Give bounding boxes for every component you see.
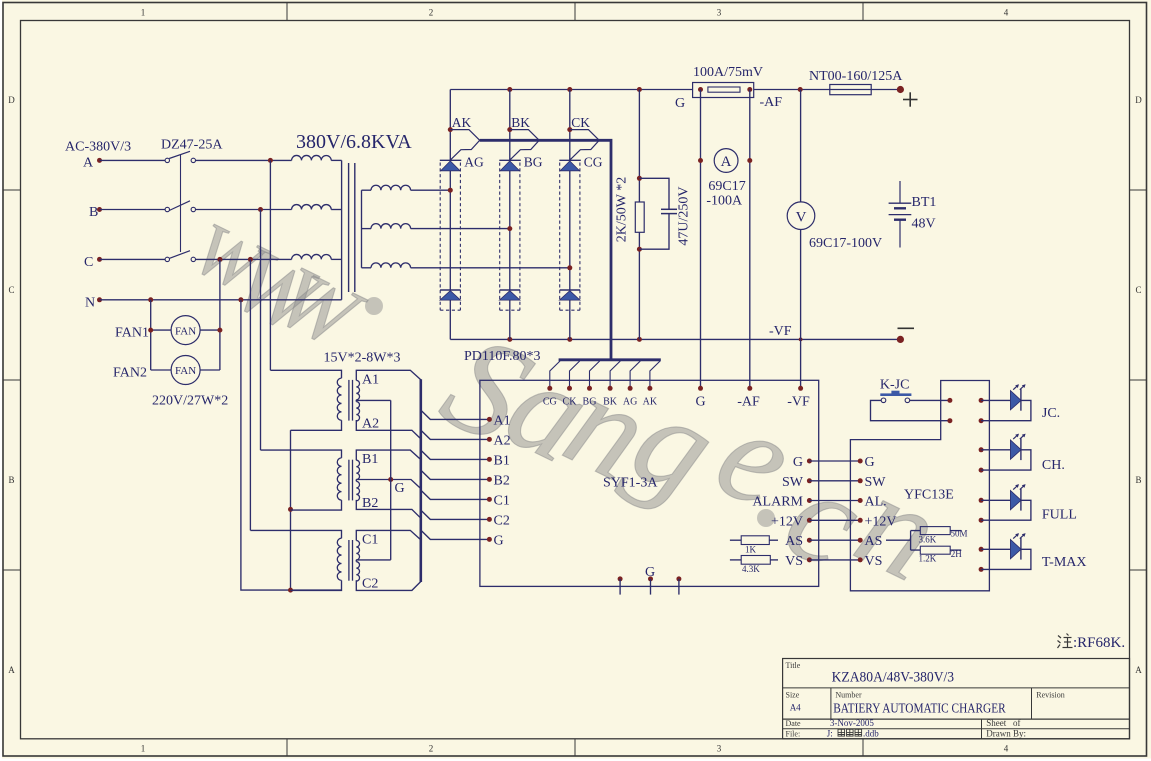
junction top B bbox=[507, 87, 512, 92]
label 48V bbox=[912, 217, 936, 232]
svg-text:BG: BG bbox=[583, 397, 597, 408]
wire B1 entry bbox=[356, 450, 421, 460]
svg-text:69C17-100V: 69C17-100V bbox=[809, 236, 882, 251]
breaker pole B DZ47-25A bbox=[100, 201, 196, 212]
primary star bracket bbox=[341, 160, 343, 299]
wire C to fans bbox=[219, 259, 221, 370]
svg-text:3: 3 bbox=[717, 8, 722, 18]
label 380V/6.8KVA bbox=[296, 131, 412, 153]
title block frame bbox=[783, 659, 1130, 740]
label FAN2 bbox=[113, 365, 147, 380]
wire bus to pin B2 bbox=[421, 470, 490, 479]
svg-text:380V/6.8KVA: 380V/6.8KVA bbox=[296, 131, 412, 153]
svg-text:CH.: CH. bbox=[1042, 458, 1065, 473]
thyristor VC cathode bar bbox=[559, 159, 581, 161]
junction ammeter L bbox=[698, 158, 703, 163]
wire coilB right bbox=[331, 209, 341, 211]
resistor 2K/50W bbox=[635, 202, 644, 232]
junction C1 bbox=[217, 257, 222, 262]
wire A to transformer bbox=[196, 159, 292, 161]
junction top R bbox=[637, 87, 642, 92]
wire column B bottom bbox=[509, 300, 511, 339]
label CH. bbox=[1042, 458, 1065, 473]
thyristor VA bbox=[441, 161, 461, 171]
label C2 t bbox=[362, 576, 378, 591]
label -AF shunt bbox=[760, 95, 783, 110]
wire column C mid bbox=[569, 171, 571, 290]
wire column A bottom bbox=[449, 300, 451, 339]
terminal B bbox=[97, 207, 102, 212]
terminal minus bbox=[897, 336, 904, 343]
module outline C bbox=[560, 163, 580, 311]
wire N down bbox=[241, 300, 342, 590]
wire C to transformer bbox=[196, 258, 292, 260]
label B2 t bbox=[362, 496, 378, 511]
svg-text:G: G bbox=[645, 565, 655, 580]
plus sign bbox=[903, 92, 918, 106]
wire K-JC right bbox=[910, 399, 950, 401]
label JC. bbox=[1042, 406, 1060, 421]
svg-text:Number: Number bbox=[835, 691, 862, 700]
svg-text:BG: BG bbox=[524, 155, 543, 170]
U2 left pin SW bbox=[858, 475, 887, 490]
module outline B bbox=[500, 163, 520, 311]
wire G leg bbox=[700, 90, 702, 389]
svg-text:PD110F.80*3: PD110F.80*3 bbox=[464, 349, 541, 364]
wire bus to pin C2 bbox=[421, 510, 490, 519]
svg-text:BK: BK bbox=[603, 397, 618, 408]
label AK bbox=[452, 115, 472, 130]
wire phase A down bbox=[269, 160, 271, 370]
transformer T1 primary coil C bbox=[292, 254, 332, 259]
junction bot C bbox=[567, 337, 572, 342]
svg-text:C: C bbox=[8, 285, 14, 295]
svg-text:G: G bbox=[395, 481, 405, 496]
svg-text:Drawn By:: Drawn By: bbox=[986, 728, 1026, 738]
junction coil a bbox=[448, 188, 453, 193]
switch K-JC bbox=[880, 391, 911, 403]
junction bot R bbox=[637, 337, 642, 342]
wire C1 entry bbox=[356, 530, 421, 540]
junction bot VF bbox=[799, 338, 803, 342]
junction BK bbox=[507, 127, 512, 132]
label BT1 bbox=[912, 195, 937, 210]
wire column A mid bbox=[449, 171, 451, 290]
module outline A bbox=[440, 163, 460, 311]
svg-text:B1: B1 bbox=[494, 454, 510, 469]
transformer TA secondary w2 bbox=[356, 402, 359, 421]
svg-text:G: G bbox=[865, 455, 875, 470]
port BK bbox=[510, 130, 539, 161]
wire AS net bbox=[886, 531, 920, 551]
svg-text:AS: AS bbox=[865, 534, 883, 549]
svg-text:C: C bbox=[84, 255, 93, 270]
breaker pole A DZ47-25A bbox=[100, 151, 196, 162]
svg-text:AK: AK bbox=[643, 397, 658, 408]
thyristor VA cathode bar bbox=[440, 159, 462, 161]
LED JC. bbox=[979, 384, 1031, 423]
svg-text:100A/75mV: 100A/75mV bbox=[693, 65, 763, 80]
label 100A/75mV bbox=[693, 65, 763, 80]
transformer TB secondary w1 bbox=[356, 460, 359, 479]
junction bot B bbox=[507, 337, 512, 342]
svg-text:File:: File: bbox=[786, 729, 801, 738]
label SYF1-3A bbox=[603, 476, 658, 491]
wire C2 entry bbox=[356, 580, 421, 590]
svg-text:-100A: -100A bbox=[706, 194, 743, 209]
wire U1-U2 row 559.9 bbox=[809, 559, 860, 561]
transformer T1 secondary coil a bbox=[362, 185, 451, 190]
wire U1-U2 row 520.3 bbox=[809, 519, 860, 521]
port CK bbox=[570, 130, 599, 161]
wire column B top bbox=[509, 90, 511, 161]
svg-text:N: N bbox=[85, 296, 95, 311]
label 2H bbox=[951, 549, 963, 559]
svg-text:D: D bbox=[8, 95, 15, 105]
transformer TC secondary w2 bbox=[356, 562, 359, 581]
number BATIERY AUTOMATIC CHARGER bbox=[833, 701, 1006, 716]
wire phase C down bbox=[249, 259, 251, 530]
wire 2K leg bottom bbox=[638, 232, 640, 339]
wire VF leg bottom bbox=[800, 230, 802, 389]
transformer TB secondary w2 bbox=[356, 481, 359, 500]
thyristor VC bbox=[560, 161, 580, 171]
wire column C top bbox=[569, 90, 571, 161]
svg-text:A: A bbox=[8, 665, 15, 675]
wire bus to pin A1 bbox=[421, 410, 490, 419]
ammeter PA1 bbox=[714, 149, 738, 173]
wire coilA right bbox=[331, 159, 341, 161]
terminal plus bbox=[897, 86, 904, 93]
wire column C bottom bbox=[569, 300, 571, 339]
label 1K bbox=[745, 545, 757, 555]
svg-text:+12V: +12V bbox=[865, 514, 897, 529]
pin -VF top bbox=[787, 386, 810, 410]
port AK bbox=[450, 130, 479, 161]
svg-text:A1: A1 bbox=[362, 372, 379, 387]
label C1 t bbox=[362, 533, 378, 548]
svg-text:CK: CK bbox=[571, 115, 590, 130]
svg-text:SW: SW bbox=[782, 475, 804, 490]
svg-text:AS: AS bbox=[785, 534, 803, 549]
label K-JC bbox=[880, 378, 910, 393]
junction fan1 left bbox=[148, 328, 153, 333]
wire bus to pin C1 bbox=[421, 490, 490, 499]
U1 right pin VS bbox=[785, 554, 812, 569]
wire B to transformer bbox=[196, 209, 292, 211]
U1 bottom pins bbox=[618, 576, 682, 594]
svg-text:ALARM: ALARM bbox=[752, 495, 803, 510]
svg-text:NT00-160/125A: NT00-160/125A bbox=[809, 69, 903, 84]
wire U1-U2 row 500.5 bbox=[809, 500, 860, 502]
svg-text:BT1: BT1 bbox=[912, 195, 937, 210]
junction K-JC a bbox=[947, 398, 952, 403]
wire B tap bbox=[356, 479, 421, 488]
label 220V/27W*2 bbox=[152, 394, 228, 409]
pin B1 left bbox=[487, 454, 510, 469]
junction top C bbox=[567, 87, 572, 92]
label A4 bbox=[790, 703, 801, 713]
resistor R4 1.2K bbox=[920, 546, 961, 554]
junction B bbox=[258, 207, 263, 212]
svg-text:G: G bbox=[675, 96, 685, 111]
svg-text:B: B bbox=[8, 475, 14, 485]
title block small labels bbox=[786, 661, 1065, 738]
svg-text:C1: C1 bbox=[362, 533, 378, 548]
svg-text:50M: 50M bbox=[951, 529, 968, 539]
thyristor VB cathode bar bbox=[499, 159, 521, 161]
svg-text:V: V bbox=[796, 210, 807, 226]
junction N2 bbox=[238, 297, 243, 302]
wire coilC right bbox=[331, 258, 341, 260]
block U2 YFC13E bbox=[850, 381, 989, 591]
label NT00-160/125A bbox=[809, 69, 903, 84]
svg-text:1.2K: 1.2K bbox=[919, 554, 937, 564]
svg-text:4.3K: 4.3K bbox=[742, 564, 760, 574]
label FULL bbox=[1042, 508, 1077, 523]
node A label bbox=[83, 156, 94, 171]
svg-text:A: A bbox=[83, 156, 94, 171]
LED CH. bbox=[979, 434, 1031, 473]
wire column A top bbox=[449, 90, 451, 161]
svg-text:AL.: AL. bbox=[865, 495, 887, 510]
junction coil c bbox=[567, 265, 572, 270]
junction shunt L bbox=[698, 87, 703, 92]
svg-text:1: 1 bbox=[141, 8, 146, 18]
label T-MAX bbox=[1042, 555, 1087, 570]
file name bbox=[827, 728, 880, 738]
svg-text:C2: C2 bbox=[362, 576, 378, 591]
svg-text:J:: J: bbox=[827, 728, 833, 738]
svg-text:FAN: FAN bbox=[175, 365, 196, 377]
junction 2K top bbox=[637, 176, 642, 181]
wire U1-U2 row 461.0 bbox=[809, 460, 860, 462]
label B1 t bbox=[362, 452, 378, 467]
svg-text:C: C bbox=[1135, 285, 1141, 295]
wire bus to pin A2 bbox=[421, 430, 490, 439]
label 3.6K bbox=[919, 535, 937, 545]
svg-text:T-MAX: T-MAX bbox=[1042, 555, 1087, 570]
svg-text:A: A bbox=[721, 154, 732, 170]
svg-text:B: B bbox=[1135, 475, 1141, 485]
diode DA cathode bar bbox=[440, 289, 461, 291]
wire AF leg bbox=[749, 90, 751, 389]
block U1 SYF1-3A bbox=[480, 380, 819, 586]
svg-text:Revision: Revision bbox=[1036, 691, 1064, 700]
terminal C bbox=[97, 257, 102, 262]
junction prim B bbox=[288, 507, 293, 512]
wire A tap bbox=[356, 400, 390, 402]
terminal N bbox=[97, 297, 102, 302]
wire B2 entry bbox=[356, 500, 421, 518]
wire K-JC left bbox=[871, 400, 950, 420]
svg-text::RF68K.: :RF68K. bbox=[1073, 635, 1125, 651]
wire A1 entry bbox=[356, 370, 421, 380]
pin C2 left bbox=[487, 514, 510, 529]
transformer TC primary bbox=[250, 530, 341, 590]
wire U1-U2 row 480.8 bbox=[809, 480, 860, 482]
pin A1 left bbox=[487, 414, 511, 429]
diode DB cathode bar bbox=[500, 289, 520, 291]
wire phase B down bbox=[260, 210, 262, 451]
svg-text:G: G bbox=[695, 395, 705, 410]
svg-text:Date: Date bbox=[786, 719, 802, 728]
svg-text:3-Nov-2005: 3-Nov-2005 bbox=[830, 718, 874, 728]
wire VF leg top bbox=[800, 90, 802, 202]
pin G top bbox=[695, 386, 705, 410]
resistor R1 1K bbox=[730, 536, 778, 545]
junction 2K bottom bbox=[637, 247, 642, 252]
transformer TC core bbox=[349, 540, 353, 581]
title KZA80A/48V-380V/3 bbox=[832, 670, 955, 686]
svg-text:Sheet of: Sheet of bbox=[986, 718, 1020, 728]
svg-text:1K: 1K bbox=[745, 545, 757, 555]
diode DC bbox=[559, 291, 580, 300]
svg-text:BATIERY AUTOMATIC CHARGER: BATIERY AUTOMATIC CHARGER bbox=[833, 701, 1006, 716]
label PD110F.80*3 bbox=[464, 349, 541, 364]
svg-text:-VF: -VF bbox=[787, 395, 810, 410]
node N label bbox=[85, 296, 95, 311]
svg-text:G: G bbox=[494, 534, 504, 549]
U1 right pin G bbox=[793, 455, 812, 470]
U2 left pin AS bbox=[858, 534, 883, 549]
wire column B mid bbox=[509, 171, 511, 290]
junction C2 bbox=[248, 257, 253, 262]
svg-text:15V*2-8W*3: 15V*2-8W*3 bbox=[324, 351, 401, 366]
U1 top pin labels bbox=[543, 397, 658, 408]
label G tap bbox=[395, 481, 405, 496]
junction ammeter R bbox=[747, 158, 752, 163]
wire fuse to plus bbox=[871, 89, 900, 91]
svg-text:Title: Title bbox=[786, 661, 801, 670]
transformer TA secondary w1 bbox=[356, 380, 359, 399]
diode DB bbox=[499, 291, 520, 300]
transformer T1 secondary coil c bbox=[362, 263, 570, 268]
svg-text:69C17: 69C17 bbox=[708, 179, 745, 194]
label A2 t bbox=[362, 416, 379, 431]
label 1.2K bbox=[919, 554, 937, 564]
diode DC cathode bar bbox=[560, 289, 581, 291]
shunt RS outer bbox=[693, 83, 754, 98]
label FAN1 bbox=[115, 326, 149, 341]
junction CK bbox=[567, 127, 572, 132]
wire U1-U2 row 540.2 bbox=[809, 539, 860, 541]
U1 right pin AS bbox=[785, 534, 812, 549]
svg-text:D: D bbox=[1135, 95, 1142, 105]
junction VF top bbox=[798, 87, 803, 92]
svg-text:A: A bbox=[1135, 665, 1142, 675]
junction shunt R bbox=[747, 87, 752, 92]
svg-text:48V: 48V bbox=[912, 217, 936, 232]
svg-text:SW: SW bbox=[865, 475, 887, 490]
svg-text:CG: CG bbox=[543, 397, 557, 408]
transformer TA core bbox=[349, 380, 353, 421]
bus K thick bbox=[480, 140, 611, 359]
pin B2 left bbox=[487, 474, 510, 489]
U1 right pin ALARM bbox=[752, 495, 811, 510]
transformer TA primary bbox=[270, 370, 341, 430]
U2 left pin G bbox=[858, 455, 875, 470]
wire bus to pin B1 bbox=[421, 450, 490, 459]
transformer T1 secondary coil b bbox=[362, 224, 510, 229]
voltmeter PV1 bbox=[787, 202, 815, 230]
svg-text:SYF1-3A: SYF1-3A bbox=[603, 476, 658, 491]
signal bus bbox=[419, 379, 422, 582]
wire N bbox=[100, 299, 342, 301]
junction tap G bbox=[388, 477, 393, 482]
junction N1 bbox=[148, 297, 153, 302]
svg-text:CG: CG bbox=[584, 155, 603, 170]
LED FULL bbox=[979, 484, 1031, 523]
svg-text:2H: 2H bbox=[951, 549, 963, 559]
secondary common bracket bbox=[361, 190, 363, 268]
label 69C17-100A bbox=[706, 179, 745, 209]
label G shunt bbox=[675, 96, 685, 111]
svg-text:FAN2: FAN2 bbox=[113, 365, 147, 380]
wire C tap bbox=[356, 560, 390, 562]
svg-text:JC.: JC. bbox=[1042, 406, 1060, 421]
svg-text:K-JC: K-JC bbox=[880, 378, 910, 393]
U2 left pin +12V bbox=[858, 514, 897, 529]
fan M1 bbox=[151, 316, 220, 345]
svg-text:2: 2 bbox=[429, 8, 434, 18]
capacitor C1 bbox=[661, 209, 677, 213]
svg-text:CK: CK bbox=[563, 397, 578, 408]
svg-text:B2: B2 bbox=[362, 496, 378, 511]
primary common bbox=[290, 430, 292, 590]
svg-text:AG: AG bbox=[464, 155, 484, 170]
junction AK bbox=[448, 127, 453, 132]
svg-text:A4: A4 bbox=[790, 703, 801, 713]
svg-text:VS: VS bbox=[865, 554, 883, 569]
svg-text:B2: B2 bbox=[494, 474, 510, 489]
svg-text:-AF: -AF bbox=[737, 395, 760, 410]
label AG bbox=[464, 155, 484, 170]
breaker pole C DZ47-25A bbox=[100, 251, 196, 262]
diode DA bbox=[440, 291, 461, 300]
label 2K/50W*2 bbox=[615, 177, 630, 242]
svg-text:A2: A2 bbox=[362, 416, 379, 431]
pin A2 left bbox=[487, 434, 511, 449]
svg-text:3: 3 bbox=[717, 744, 722, 754]
top rail wire bbox=[450, 89, 692, 91]
transformer T1 primary coil A bbox=[292, 155, 332, 160]
svg-text:C1: C1 bbox=[494, 494, 510, 509]
junction fan1 right bbox=[217, 328, 222, 333]
label 50M bbox=[951, 529, 968, 539]
tap common wire bbox=[390, 400, 392, 560]
wire N to fans bbox=[150, 300, 152, 370]
U1 right pin +12V bbox=[771, 514, 812, 529]
junction coil b bbox=[507, 226, 512, 231]
svg-text:+12V: +12V bbox=[771, 514, 803, 529]
label YFC13E bbox=[904, 488, 954, 503]
LED T-MAX bbox=[979, 533, 1031, 572]
resistor R2 4.3K bbox=[730, 556, 778, 565]
label BG bbox=[524, 155, 543, 170]
label -VF rail bbox=[769, 324, 792, 339]
svg-text:VS: VS bbox=[785, 554, 803, 569]
node B label bbox=[89, 205, 98, 220]
svg-text:2K/50W *2: 2K/50W *2 bbox=[615, 177, 630, 242]
resistor R3 3.6K bbox=[920, 527, 961, 535]
transformer TC secondary w1 bbox=[356, 541, 359, 560]
fan M2 bbox=[151, 356, 220, 385]
minus sign bbox=[898, 327, 915, 329]
label A1 t bbox=[362, 372, 379, 387]
U1 top pin dots bbox=[547, 386, 652, 391]
svg-text:-AF: -AF bbox=[760, 95, 783, 110]
